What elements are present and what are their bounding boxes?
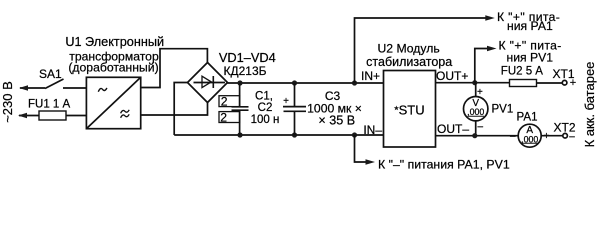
wire top rail (plus bus)	[228, 82, 384, 84]
node PA1 plus polarity	[544, 131, 550, 142]
wire FU2 to XT1	[537, 82, 563, 84]
svg-text:STU: STU	[399, 103, 425, 118]
node junction OUT- tap	[472, 133, 477, 138]
node junction bottom of C3	[292, 132, 297, 137]
wire tap down to PA1 PV1 supply minus	[355, 135, 372, 162]
svg-text:С1,: С1,	[255, 91, 273, 103]
svg-text:К акк. батарее: К акк. батарее	[582, 62, 597, 148]
node junction bottom of C1C2	[237, 132, 242, 137]
wire mains phase to SA1	[20, 87, 45, 89]
node arrow to mains (bottom)	[18, 113, 27, 119]
svg-text:2: 2	[220, 110, 227, 124]
svg-text:С2: С2	[258, 102, 273, 114]
wire PA1 to XT2	[541, 135, 563, 137]
label C3 1000uF 35V	[307, 89, 362, 128]
svg-text:+: +	[283, 96, 289, 107]
fuse FU2	[510, 80, 537, 87]
svg-text:OUT–: OUT–	[437, 122, 469, 136]
node junction top of C1C2	[237, 80, 242, 85]
connector pin 2 lower	[219, 110, 240, 124]
label XT2	[554, 121, 576, 135]
fuse FU1	[39, 111, 66, 120]
svg-text:–: –	[569, 132, 575, 143]
label to plus supply of PA1	[497, 10, 560, 33]
terminal XT1	[562, 80, 567, 85]
svg-text:КД213Б: КД213Б	[223, 64, 266, 78]
label to plus supply of PV1	[499, 38, 562, 64]
label pin OUT+	[436, 69, 468, 83]
label PA1	[517, 111, 538, 123]
svg-text:U1 Электронный: U1 Электронный	[65, 35, 164, 49]
svg-text:U2 Модуль: U2 Модуль	[378, 42, 440, 56]
svg-text:100 н: 100 н	[251, 114, 280, 126]
symbol AC input of U1	[98, 88, 107, 92]
node PA1 minus polarity	[510, 131, 516, 142]
diode symbol inside bridge	[194, 76, 226, 88]
capacitor C3 electrolytic	[283, 83, 306, 135]
label to minus supply of PA1 PV1	[378, 157, 510, 171]
voltmeter PV1	[464, 97, 488, 121]
label pin OUT-	[437, 122, 469, 136]
svg-text:IN–: IN–	[363, 123, 382, 137]
node XT1 plus polarity	[570, 77, 576, 89]
label VD1-VD4 KD213B	[219, 50, 276, 78]
wire U1 top output to bridge top vertex	[141, 49, 208, 88]
svg-text:РА1: РА1	[517, 111, 538, 123]
svg-text:–: –	[510, 131, 516, 142]
label U1 electronic transformer	[65, 35, 164, 75]
label PV1	[492, 104, 514, 116]
wire PV1 top lead	[475, 83, 477, 97]
svg-text:FU1 1 А: FU1 1 А	[28, 98, 71, 110]
label C1 C2 100n	[251, 91, 280, 127]
wire bridge minus vertex down to bottom rail	[174, 83, 187, 136]
svg-text:ния PV1: ния PV1	[507, 50, 554, 64]
svg-text:OUT+: OUT+	[436, 69, 468, 83]
svg-text:IN+: IN+	[361, 69, 380, 83]
node PV1 minus polarity	[478, 122, 484, 133]
svg-text:+: +	[570, 77, 576, 89]
node arrow to minus supply	[366, 159, 376, 165]
label pin IN-	[363, 123, 382, 137]
wire C1C2 branch vertical	[239, 83, 241, 135]
svg-text:~230 В: ~230 В	[0, 81, 15, 123]
svg-text:,000: ,000	[467, 107, 484, 117]
node arrow to mains (top)	[19, 85, 28, 91]
wire tap up to PA1 supply plus	[355, 18, 492, 83]
node junction top rail tap	[352, 80, 357, 85]
node arrow to PV1 supply	[487, 46, 497, 52]
node C3 plus polarity	[283, 96, 289, 107]
wire OUT- to PA1	[436, 135, 519, 137]
diode bridge VD1-VD4 diamond	[188, 63, 228, 103]
switch SA1	[45, 79, 86, 89]
svg-text:К "–" питания РА1, PV1: К "–" питания РА1, PV1	[378, 157, 510, 171]
wire tap up to PV1 supply plus	[475, 49, 493, 83]
wire mains neutral to FU1	[19, 115, 39, 117]
terminal XT2	[563, 133, 568, 138]
capacitor C1 C2 plates	[232, 107, 249, 110]
node junction bottom rail tap	[352, 132, 357, 137]
node ~230 V mains label	[0, 81, 15, 123]
wire OUT+ to FU2	[436, 82, 510, 84]
wire FU1 to U1	[66, 115, 86, 117]
svg-text:ния РА1: ния РА1	[507, 19, 553, 33]
node junction top of C3	[292, 80, 297, 85]
wire PV1 bottom lead	[475, 121, 477, 136]
wire bottom rail (minus bus)	[174, 134, 383, 136]
label pin IN+	[361, 69, 380, 83]
svg-text:(доработанный): (доработанный)	[68, 61, 158, 75]
node star mark on U2	[394, 106, 399, 111]
svg-text:–: –	[478, 122, 484, 133]
label STU inside U2	[399, 103, 425, 118]
connector pin 2 upper	[219, 95, 240, 109]
label XT1	[553, 67, 575, 81]
label FU1 1 A	[28, 98, 71, 110]
svg-text:SA1: SA1	[39, 67, 62, 81]
label U2 stabilizer module	[366, 42, 452, 69]
svg-text:2: 2	[221, 95, 228, 109]
svg-text:× 35 В: × 35 В	[318, 113, 355, 127]
label SA1	[39, 67, 62, 81]
node battery connection label	[582, 62, 597, 148]
wire U1 bottom output to bridge bottom vertex	[141, 103, 208, 116]
svg-text:стабилизатора: стабилизатора	[366, 55, 452, 69]
node PV1 plus polarity	[477, 87, 483, 98]
ammeter PA1	[518, 124, 541, 147]
transformer U1 box	[86, 77, 140, 128]
stabilizer module U2 box	[384, 71, 436, 148]
node XT2 minus polarity	[569, 132, 575, 143]
svg-text:FU2 5 А: FU2 5 А	[501, 66, 544, 78]
label FU2 5 A	[501, 66, 544, 78]
svg-text:PV1: PV1	[492, 104, 514, 116]
svg-text:VD1–VD4: VD1–VD4	[219, 50, 276, 65]
node junction OUT+ tap	[472, 80, 477, 85]
node arrow to PA1 supply	[485, 15, 495, 21]
svg-text:+: +	[477, 87, 483, 98]
symbol HF AC output of U1	[121, 110, 130, 118]
